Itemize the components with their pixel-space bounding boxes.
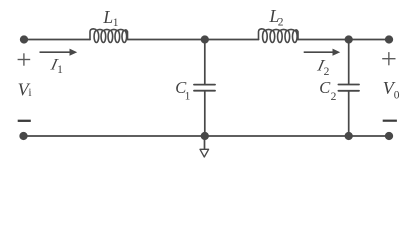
wire top right segment [298, 39, 389, 41]
node dot C1 top [201, 35, 209, 43]
svg-text:i: i [28, 87, 31, 99]
ground stub wire [204, 136, 206, 149]
svg-text:C: C [319, 78, 331, 97]
node dot output top [385, 35, 393, 43]
svg-text:1: 1 [57, 64, 63, 76]
wire C1 lower lead [204, 92, 206, 137]
svg-text:L: L [102, 7, 113, 27]
svg-text:0: 0 [394, 90, 400, 102]
node dot input bottom [19, 132, 27, 140]
node dot C2 bottom [345, 132, 353, 140]
current arrow I2 [304, 49, 341, 56]
wire C2 upper lead [348, 40, 350, 84]
svg-text:2: 2 [324, 66, 330, 78]
wire C2 lower lead [348, 92, 350, 136]
node dot input top [20, 35, 28, 43]
capacitor C2 [338, 85, 359, 91]
svg-text:2: 2 [278, 17, 284, 29]
wire top middle segment [128, 39, 259, 41]
node dot C2 top [345, 35, 353, 43]
wire C1 upper lead [204, 40, 206, 84]
wire top left segment [24, 39, 90, 41]
capacitor C1 [194, 85, 215, 91]
minus sign input [18, 120, 31, 122]
wire bottom [24, 135, 390, 137]
svg-text:1: 1 [113, 17, 119, 29]
svg-text:2: 2 [331, 91, 337, 103]
node dot C1 bottom / ground junction [201, 132, 209, 140]
node dot output bottom [385, 132, 393, 140]
inductor L1 [90, 29, 128, 43]
minus sign output [383, 120, 397, 122]
current arrow I1 [40, 49, 78, 56]
svg-text:1: 1 [185, 90, 191, 102]
plus sign input [18, 53, 31, 65]
ground [200, 149, 209, 157]
plus sign output [382, 52, 395, 65]
inductor L2 [259, 29, 299, 43]
